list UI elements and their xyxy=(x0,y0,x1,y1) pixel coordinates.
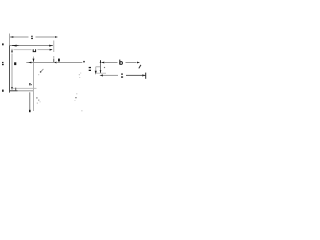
arrowhead right of dimension a xyxy=(55,36,58,38)
side view: vertical extension line x=100.5 xyxy=(100,60,102,73)
outer bottom edge of profile, gray segment xyxy=(18,90,34,92)
long gray extension line x=33.5 xyxy=(33,57,35,112)
left-pointing arrowhead at x=53.7 on mid dimension xyxy=(54,62,57,64)
extension line x=53.75 lower light segment xyxy=(53,56,55,59)
dimension line 3 (inner width, y=49.6) xyxy=(14,49,53,51)
arrowhead right of dimension 2 xyxy=(49,45,53,47)
arrowhead left of dimension a xyxy=(10,36,13,38)
side view: bottom edge of bar xyxy=(96,72,106,74)
lower dimension line (side view, y=75.4) xyxy=(100,74,146,76)
arrowhead right of dimension 3 xyxy=(50,49,53,51)
value label of inner vertical dimension xyxy=(14,62,16,65)
specks below profile leg xyxy=(36,97,40,103)
value label of dimension a xyxy=(31,36,33,39)
end dot of mid dimension tail xyxy=(83,61,85,63)
dark extension line x=29.75 below profile xyxy=(29,92,31,112)
inner left edge of profile / vertical dimension line xyxy=(11,54,13,87)
left margin label s (bottom) xyxy=(2,90,4,92)
side view: top edge of bar xyxy=(96,66,101,68)
dimension line 2 / top edge of profile (y=45.5) xyxy=(10,45,54,47)
horizontal dimension line mid (y=62.5), left part xyxy=(26,62,53,64)
outer left edge of profile xyxy=(9,46,11,93)
inner bottom edge of profile xyxy=(13,87,37,89)
diagonal leader tick inside profile corner xyxy=(38,69,43,75)
left-pointing arrowhead on mid dimension xyxy=(28,62,31,64)
thickness tick on bottom leg xyxy=(14,88,17,91)
extension line x=53.75 lower dark segment xyxy=(53,59,55,63)
label '=' left of side view xyxy=(89,67,91,71)
diagonal mark at right end of bar xyxy=(139,65,141,69)
terminal tick at right end of lower dimension xyxy=(145,73,147,79)
down arrowhead of inner vertical dimension xyxy=(11,87,13,91)
down arrowhead on extension line x=33.5 xyxy=(33,59,35,63)
specks middle-bottom of page xyxy=(75,73,83,112)
arrowhead left of dimension 2 xyxy=(12,45,16,47)
left margin label a (middle) xyxy=(2,62,4,65)
speck near side view top edge xyxy=(104,67,105,68)
up arrowhead of inner vertical dimension xyxy=(11,48,13,52)
side view: left end line of bar xyxy=(95,67,97,74)
dimension line b (side view, y=62.5) xyxy=(101,62,140,64)
value label b of dimension b xyxy=(120,60,123,65)
dimension line a (outer width, top of cross-section view) xyxy=(10,36,55,38)
value label above bottom leg xyxy=(29,83,32,85)
left margin label s (top) xyxy=(2,43,4,45)
value label u of dimension 3 xyxy=(33,49,35,51)
extension line, top left xyxy=(9,34,11,46)
down arrowhead on x=100.5 xyxy=(100,70,102,73)
outer bottom edge of profile, dark segment xyxy=(10,90,18,92)
up arrowhead on x=100.5 xyxy=(100,60,102,63)
value label z of lower dimension xyxy=(121,74,123,78)
extension line x=53.75 upper segment xyxy=(53,41,55,53)
value label s of mid dimension xyxy=(58,59,60,62)
horizontal dimension line mid (y=62.5), right tail xyxy=(57,62,82,64)
dark tip at bottom of extension line x=29.75 xyxy=(29,110,31,112)
side view: down arrowhead at left end xyxy=(95,71,97,75)
